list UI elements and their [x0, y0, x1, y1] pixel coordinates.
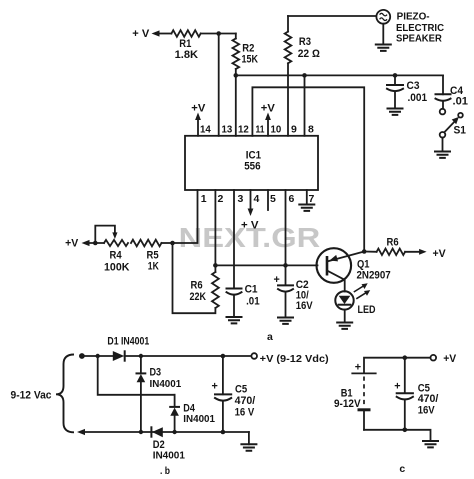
- svg-text:15K: 15K: [242, 53, 259, 65]
- svg-text:4: 4: [254, 193, 260, 205]
- svg-text:IN4001: IN4001: [150, 378, 182, 390]
- svg-text:12: 12: [238, 124, 249, 136]
- svg-text:1: 1: [201, 193, 207, 205]
- svg-text:9: 9: [291, 124, 297, 136]
- svg-text:+ V: + V: [241, 219, 259, 231]
- node D4 anode junction: [172, 430, 176, 434]
- diode D2 IN4001: [151, 427, 185, 461]
- svg-text:470/: 470/: [418, 393, 439, 405]
- wire to ground: [248, 432, 250, 444]
- ground (C1): [227, 317, 242, 323]
- svg-text:+V: +V: [433, 248, 447, 260]
- 9-12 Vac brace: [11, 355, 75, 433]
- wire down to middle line: [98, 356, 175, 395]
- wire R5 to pin1 junction: [162, 242, 173, 244]
- battery B1 9-12V: [334, 362, 376, 430]
- transistor Q1 2N2907: [317, 248, 391, 291]
- node junction dot left of R4: [93, 241, 98, 246]
- op IC1 556 box: [185, 136, 318, 190]
- wire speaker to ground: [382, 24, 384, 45]
- piezo-electric speaker: [376, 10, 444, 45]
- node pin8/W1 junction: [302, 73, 307, 78]
- ground (speaker): [376, 45, 391, 51]
- svg-text:7: 7: [309, 193, 315, 205]
- svg-text:9-12V: 9-12V: [334, 398, 361, 410]
- potentiometer R4 100K: [95, 226, 129, 274]
- svg-text:100K: 100K: [104, 262, 130, 274]
- node +V terminal c: [431, 355, 437, 361]
- svg-text:14: 14: [200, 124, 211, 136]
- svg-text:+V: +V: [443, 353, 457, 365]
- capacitor C3: [387, 73, 427, 108]
- resistor R3: [285, 16, 320, 63]
- diode D3 IN4001: [137, 356, 182, 432]
- node +V top-left: [132, 28, 171, 40]
- wire W2 pin11 to transistor: [252, 87, 364, 251]
- node junction R5/pin1/R6 loop: [170, 241, 175, 246]
- node pin 4 +V arrow: [241, 190, 259, 231]
- switch S1: [440, 109, 466, 152]
- node D3 anode junction: [139, 430, 143, 434]
- svg-text:S1: S1: [454, 125, 467, 137]
- svg-text:c: c: [399, 463, 405, 475]
- svg-text:556: 556: [244, 161, 260, 173]
- wire: [201, 33, 236, 35]
- svg-text:.01: .01: [246, 296, 260, 308]
- wire: [158, 33, 171, 35]
- capacitor C1 .01: [227, 284, 260, 317]
- svg-text:+ V: + V: [132, 28, 150, 40]
- ground (C2): [278, 318, 293, 324]
- node pin6/C2 junction: [283, 263, 288, 268]
- ground (C3): [388, 109, 403, 115]
- svg-text:IN4001: IN4001: [153, 450, 185, 462]
- svg-text:.01: .01: [453, 96, 469, 108]
- wire to +V right: [405, 251, 420, 253]
- svg-text:.001: .001: [408, 92, 428, 104]
- svg-text:PIEZO-: PIEZO-: [397, 12, 430, 23]
- svg-text:R3: R3: [299, 36, 311, 48]
- wire to speaker: [288, 15, 377, 17]
- svg-text:D3: D3: [150, 366, 162, 378]
- resistor R5 1K: [131, 240, 161, 273]
- LED: [335, 283, 375, 322]
- wire top rail c: [364, 358, 431, 372]
- svg-text:+V: +V: [191, 102, 206, 114]
- node R2/W1 junction: [234, 73, 239, 78]
- wire pin 1: [173, 190, 198, 243]
- node C5 bottom junction c: [403, 428, 408, 433]
- svg-text:+: +: [394, 380, 400, 392]
- node AC input bottom arrow: [77, 429, 85, 435]
- capacitor C5 470/16V (c): [394, 358, 438, 430]
- svg-text:C3: C3: [407, 80, 420, 92]
- svg-text:C1: C1: [245, 284, 258, 296]
- svg-text:LED: LED: [358, 304, 376, 316]
- svg-text:SPEAKER: SPEAKER: [396, 33, 442, 44]
- svg-text:11: 11: [256, 124, 265, 136]
- diode D1 IN4001: [107, 336, 149, 361]
- node junction to middle line: [96, 354, 100, 358]
- svg-text:1K: 1K: [148, 261, 159, 273]
- svg-text:16 V: 16 V: [235, 407, 255, 419]
- svg-text:2N2907: 2N2907: [357, 270, 391, 282]
- svg-text:. b: . b: [160, 465, 170, 477]
- node emitter/R6/W2 junction: [362, 249, 367, 254]
- node pin2/R6/W3 junction: [213, 263, 218, 268]
- svg-text:13: 13: [222, 124, 233, 136]
- svg-text:2: 2: [218, 193, 224, 205]
- node +V left: [65, 237, 104, 249]
- svg-text:D1 IN4001: D1 IN4001: [107, 336, 149, 348]
- node C5 top junction c: [403, 355, 408, 360]
- pin numbers bottom row: [201, 193, 315, 205]
- capacitor C2 10/16V: [274, 265, 314, 317]
- svg-text:16V: 16V: [418, 404, 436, 416]
- resistor R2: [233, 34, 259, 69]
- pin numbers top row: [200, 124, 314, 136]
- wire bottom rail c: [364, 430, 431, 441]
- wire pin 9: [287, 63, 289, 136]
- resistor R1: [171, 30, 200, 61]
- wire pin 6: [285, 190, 287, 265]
- wire top rail after D1: [125, 355, 252, 357]
- svg-text:22K: 22K: [190, 291, 207, 303]
- svg-text:3: 3: [238, 193, 244, 205]
- ground (S1): [435, 152, 450, 158]
- svg-text:R5: R5: [147, 249, 159, 261]
- svg-text:5: 5: [270, 193, 276, 205]
- node +V output terminal b: [251, 353, 257, 359]
- svg-text:+V: +V: [261, 102, 276, 114]
- ground (b): [241, 444, 256, 450]
- wire W3 to transistor base: [215, 264, 317, 266]
- svg-text:+: +: [355, 362, 361, 374]
- node +V arrow above pin 14: [191, 102, 206, 136]
- svg-text:+V (9-12 Vdc): +V (9-12 Vdc): [260, 353, 329, 365]
- wire W1 horizontal bus: [236, 74, 443, 76]
- node +V arrow above pin 10: [261, 102, 276, 136]
- svg-text:6: 6: [289, 193, 295, 205]
- svg-text:1.8K: 1.8K: [175, 49, 199, 61]
- svg-text:IN4001: IN4001: [183, 413, 215, 425]
- wire pin 12: [235, 69, 237, 136]
- resistor R6 22K: [190, 265, 219, 308]
- node AC input top terminal: [79, 353, 85, 359]
- node D3 cathode junction: [139, 354, 143, 358]
- wire pin 3 to C1: [233, 190, 235, 288]
- node junction R1/R2/pin13: [216, 31, 221, 36]
- svg-text:C5: C5: [235, 384, 247, 396]
- capacitor C4: [436, 75, 469, 108]
- svg-text:10: 10: [271, 124, 282, 136]
- resistor R6 (output): [364, 237, 405, 255]
- ground (pin 7): [299, 205, 314, 211]
- ground (c): [423, 441, 438, 447]
- svg-text:+: +: [212, 381, 218, 393]
- wire bottom rail: [84, 431, 249, 433]
- capacitor C5 470/16V: [212, 356, 256, 432]
- svg-text:470/: 470/: [235, 395, 256, 407]
- wire pin 7 to ground: [306, 190, 308, 205]
- ground (LED): [337, 323, 352, 329]
- wire pin 5 stub: [267, 190, 269, 210]
- node C5 bottom junction: [221, 430, 226, 435]
- svg-text:22 Ω: 22 Ω: [298, 48, 320, 60]
- svg-text:8: 8: [308, 124, 314, 136]
- wire R6 feedback loop: [173, 243, 216, 313]
- svg-text:R4: R4: [110, 249, 122, 261]
- svg-text:R6: R6: [387, 237, 399, 249]
- wire pin 8: [304, 75, 306, 135]
- svg-text:a: a: [267, 331, 273, 343]
- svg-text:16V: 16V: [296, 300, 314, 312]
- svg-text:9-12 Vac: 9-12 Vac: [11, 390, 52, 402]
- wire pin 13: [218, 34, 220, 136]
- diode D4 IN4001: [170, 395, 215, 432]
- wire pin 2: [214, 190, 216, 265]
- svg-text:R6: R6: [191, 280, 203, 292]
- svg-text:+V: +V: [65, 237, 79, 249]
- svg-text:+: +: [274, 274, 280, 286]
- node C5 top junction: [221, 354, 226, 359]
- wire top rail: [82, 355, 113, 357]
